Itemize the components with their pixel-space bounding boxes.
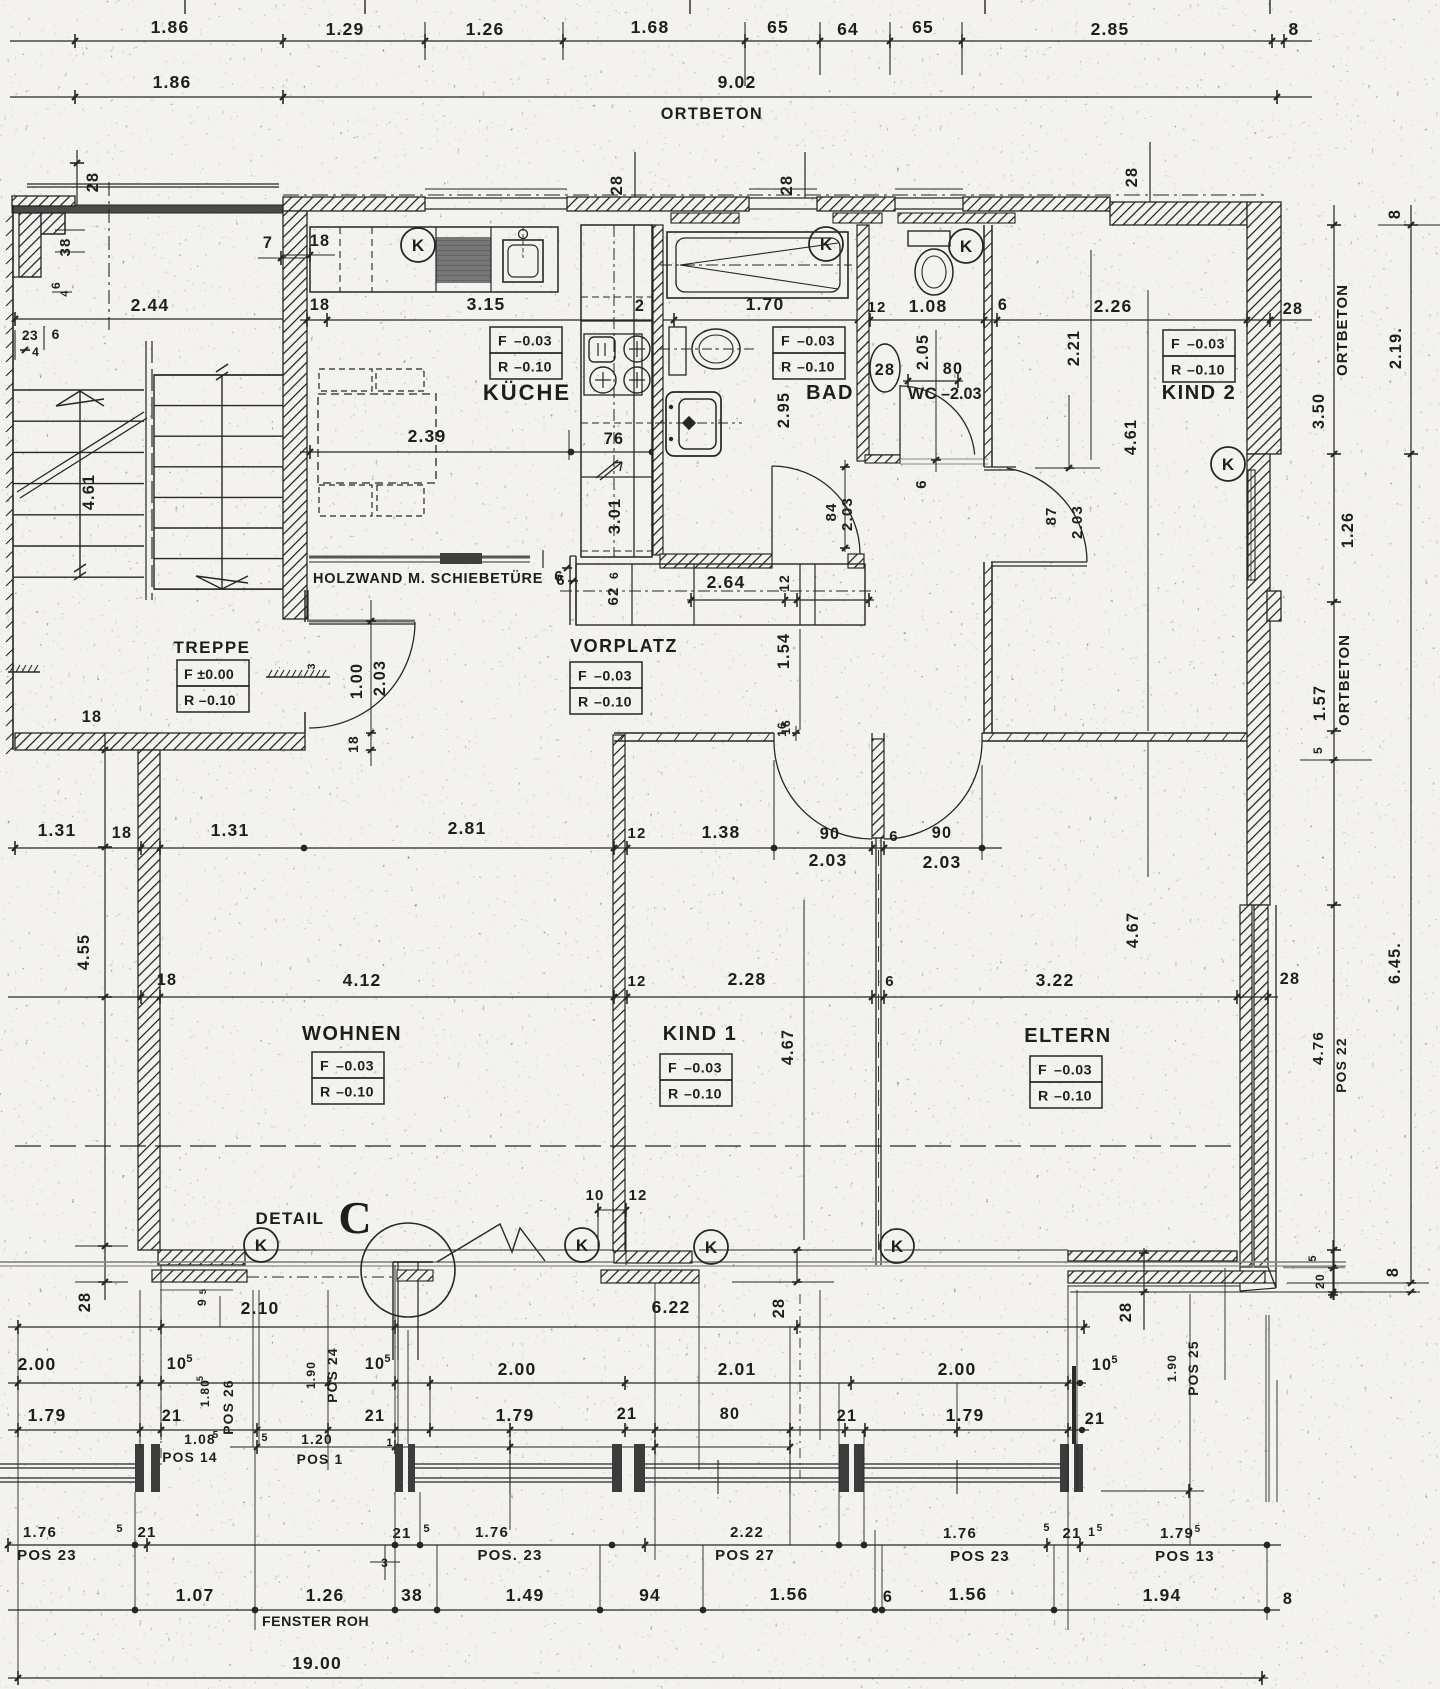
label 2.95 rot — [775, 392, 793, 428]
svg-text:21: 21 — [365, 1407, 385, 1425]
left vert dim line — [98, 740, 112, 1300]
dim labels 2.03 doors — [809, 850, 962, 872]
svg-text:6: 6 — [885, 973, 895, 990]
wc 28 ellipse — [870, 344, 900, 392]
label POS 22 right — [1334, 1037, 1349, 1093]
svg-text:21: 21 — [837, 1407, 857, 1425]
svg-text:6: 6 — [607, 571, 621, 579]
svg-text:R –0.10: R –0.10 — [184, 693, 236, 709]
wall top-left nook vertical — [19, 213, 41, 277]
dim label 2.85 — [1091, 19, 1130, 39]
label 19.00 — [292, 1653, 342, 1673]
stair divider double line — [146, 341, 152, 600]
entry door arc — [309, 622, 415, 728]
bottom verticals — [18, 1265, 1277, 1678]
K circle kitchen — [401, 228, 435, 262]
svg-text:R: R — [320, 1085, 331, 1101]
svg-text:80: 80 — [943, 360, 963, 378]
svg-text:1.08: 1.08 — [909, 296, 948, 316]
svg-text:5: 5 — [423, 1523, 430, 1535]
K circle bad — [809, 227, 843, 261]
dim top row2 line — [10, 90, 1312, 104]
tiny 3 label — [370, 1545, 400, 1580]
dim 6 nook — [49, 281, 72, 297]
wall top right of wc — [963, 197, 1110, 211]
svg-text:5: 5 — [1311, 746, 1325, 754]
svg-text:K: K — [255, 1236, 268, 1255]
kitchen counter — [310, 227, 558, 292]
wc threshold — [900, 459, 988, 464]
kind2 door dims — [1035, 395, 1100, 539]
pillar mid hatch — [601, 1251, 699, 1283]
svg-text:POS 27: POS 27 — [715, 1547, 775, 1564]
dim row bad y321 already in y320 — [0, 0, 1, 1]
svg-text:F: F — [498, 334, 507, 350]
dim row 2.39 y456 — [300, 430, 660, 460]
svg-text:5: 5 — [213, 1430, 220, 1441]
window top bad — [749, 189, 817, 209]
svg-text:18: 18 — [112, 824, 132, 842]
kind1 level box — [660, 1054, 732, 1106]
svg-text:1.08: 1.08 — [184, 1432, 216, 1447]
svg-text:1: 1 — [386, 1437, 393, 1449]
svg-text:POS. 23: POS. 23 — [477, 1547, 542, 1564]
svg-text:28: 28 — [1123, 167, 1141, 187]
svg-text:TREPPE: TREPPE — [173, 638, 250, 657]
dim 28 bad top — [778, 152, 805, 198]
cabinet left wall stub — [570, 556, 576, 625]
svg-text:90: 90 — [932, 824, 952, 842]
svg-text:21: 21 — [137, 1524, 156, 1541]
svg-text:38: 38 — [401, 1585, 423, 1605]
right dim chain outer — [1404, 205, 1418, 1283]
svg-text:12: 12 — [867, 299, 886, 316]
label BAD — [806, 382, 854, 404]
svg-text:28: 28 — [1283, 300, 1303, 318]
label ELTERN — [1024, 1025, 1112, 1047]
label FENSTER ROH — [262, 1614, 369, 1630]
svg-text:5: 5 — [195, 1375, 205, 1381]
svg-text:5: 5 — [1195, 1524, 1202, 1535]
wc toilet — [908, 231, 953, 295]
bottom dashdot verticals — [161, 1294, 800, 1478]
wall right outer line — [1240, 905, 1276, 1291]
label 2.21 rot — [1065, 250, 1091, 460]
svg-text:F: F — [1038, 1063, 1047, 1079]
dim label 1.26 — [466, 19, 505, 39]
svg-text:–0.10: –0.10 — [594, 695, 632, 711]
centerline top wall dash-dot — [283, 194, 1268, 196]
label 4.67 kind1 — [779, 900, 804, 1240]
svg-text:10: 10 — [1092, 1356, 1112, 1374]
detail circle — [361, 1223, 455, 1317]
dim label 1.70 — [746, 294, 785, 314]
svg-text:12: 12 — [777, 574, 792, 592]
label 2.19 right — [1387, 327, 1405, 369]
right bottom small dims — [1283, 1240, 1345, 1300]
svg-text:2.00: 2.00 — [938, 1359, 977, 1379]
svg-text:18: 18 — [82, 708, 102, 726]
svg-text:2.21: 2.21 — [1065, 330, 1083, 366]
svg-text:POS 1: POS 1 — [297, 1452, 344, 1467]
vorplatz cabinets — [560, 564, 876, 625]
pillar dims — [585, 1187, 647, 1265]
K circle w2 — [565, 1228, 599, 1262]
dim row 2.64 — [687, 572, 874, 607]
svg-text:–0.03: –0.03 — [684, 1061, 722, 1077]
dim label 1.08 — [909, 296, 948, 316]
svg-text:5: 5 — [186, 1353, 193, 1365]
svg-text:–0.10: –0.10 — [684, 1087, 722, 1103]
balcony strip left — [152, 1270, 247, 1290]
dim label 1.86 row2 — [153, 72, 192, 92]
svg-text:–0.03: –0.03 — [336, 1059, 374, 1075]
svg-text:KIND 1: KIND 1 — [663, 1023, 738, 1045]
window top kitchen — [425, 189, 567, 209]
vorplatz level box — [570, 662, 642, 714]
dim 38 nook — [55, 230, 85, 257]
svg-text:8: 8 — [1386, 209, 1404, 219]
svg-text:1.57: 1.57 — [1311, 685, 1329, 721]
dim row D y1447 — [230, 1440, 793, 1454]
svg-text:R: R — [781, 360, 792, 376]
wall top above bad-wc — [817, 197, 895, 211]
svg-text:1.26: 1.26 — [466, 19, 505, 39]
dim label 9.02 — [718, 72, 757, 92]
dim 28 left top — [70, 150, 102, 207]
stair diagonal rail — [17, 412, 147, 498]
hatch ticks left edge — [6, 215, 13, 754]
kitchen appliance gray — [436, 227, 491, 292]
wall bad left — [653, 225, 663, 555]
K circle wc — [949, 229, 983, 263]
svg-text:F ±0.00: F ±0.00 — [184, 667, 234, 683]
label 4.76 right — [1310, 1031, 1327, 1065]
svg-text:1.79: 1.79 — [946, 1405, 985, 1425]
svg-text:28: 28 — [76, 1292, 94, 1312]
wall inner strip above bad — [671, 213, 739, 223]
svg-text:10: 10 — [365, 1355, 385, 1373]
dim labels row C — [28, 1405, 1106, 1428]
wall inner strip above wc — [833, 213, 882, 223]
dim top row1 line — [10, 34, 1312, 48]
svg-text:1: 1 — [1088, 1525, 1096, 1539]
svg-text:3.15: 3.15 — [467, 294, 506, 314]
wall right main — [1247, 454, 1270, 905]
svg-text:2.26: 2.26 — [1094, 296, 1133, 316]
zigzag break — [437, 1224, 545, 1262]
balcony edge line top-left — [27, 184, 279, 187]
svg-text:6: 6 — [998, 296, 1008, 314]
dim 3.01 rotated — [606, 498, 624, 534]
svg-text:4: 4 — [32, 345, 40, 359]
dim labels row y997 — [157, 969, 1300, 990]
kitchen right column — [581, 225, 652, 557]
svg-text:–0.10: –0.10 — [336, 1085, 374, 1101]
label 4.55 rot — [75, 934, 93, 970]
label 28 left bottom — [75, 1246, 128, 1312]
svg-text:2.03: 2.03 — [1069, 505, 1086, 539]
svg-text:12: 12 — [627, 973, 646, 990]
svg-text:2.85: 2.85 — [1091, 19, 1130, 39]
dash-dot extension x109 — [108, 182, 110, 330]
label 1.26 right — [1339, 512, 1357, 548]
dim 6 left cab — [556, 572, 578, 589]
svg-text:VORPLATZ: VORPLATZ — [570, 636, 678, 656]
svg-text:2: 2 — [635, 297, 645, 315]
bad door dims — [823, 460, 856, 552]
dim label 2.26 — [1094, 296, 1133, 316]
svg-text:2.01: 2.01 — [718, 1359, 757, 1379]
svg-text:K: K — [412, 236, 425, 255]
dim row F y1545 — [5, 1538, 1281, 1552]
svg-text:5: 5 — [116, 1523, 123, 1535]
label WC 2.03 — [908, 384, 982, 403]
dim row A y1327 — [8, 1320, 1090, 1334]
label ORTBETON right1 — [1334, 284, 1351, 376]
svg-text:28: 28 — [778, 175, 796, 195]
window line long — [0, 1262, 1346, 1266]
svg-text:R: R — [1171, 363, 1182, 379]
svg-text:6: 6 — [913, 479, 930, 489]
label ORTBETON top — [661, 105, 764, 123]
svg-text:18: 18 — [310, 296, 330, 314]
window top edge line — [245, 1249, 1068, 1251]
eltern bottom right step — [1265, 1271, 1276, 1283]
label WOHNEN — [302, 1023, 402, 1045]
svg-text:–0.10: –0.10 — [514, 360, 552, 376]
svg-text:5: 5 — [261, 1432, 268, 1444]
svg-text:65: 65 — [912, 17, 934, 37]
svg-text:–0.10: –0.10 — [1187, 363, 1225, 379]
svg-text:4.67: 4.67 — [1124, 912, 1142, 948]
label 3.50 right — [1310, 393, 1328, 429]
svg-text:8: 8 — [1283, 1590, 1293, 1608]
pos labels row F — [17, 1547, 1215, 1565]
svg-text:10: 10 — [167, 1355, 187, 1373]
label KUCHE — [483, 380, 571, 405]
wall kitchen left — [283, 211, 307, 619]
svg-text:18: 18 — [310, 232, 330, 250]
svg-text:F: F — [781, 334, 790, 350]
kind2 door opening edges — [984, 467, 1087, 566]
svg-text:POS 14: POS 14 — [162, 1450, 218, 1465]
svg-text:2.03: 2.03 — [839, 497, 856, 531]
kitchen arrow symbol — [596, 460, 622, 480]
svg-text:1.70: 1.70 — [746, 294, 785, 314]
dim label 1.86 — [151, 17, 190, 37]
wall bad south — [660, 554, 864, 568]
svg-text:R: R — [1038, 1089, 1049, 1105]
svg-text:ORTBETON: ORTBETON — [1334, 284, 1351, 376]
svg-text:12: 12 — [628, 1187, 647, 1204]
svg-text:2.03: 2.03 — [809, 850, 848, 870]
svg-text:K: K — [576, 1236, 589, 1255]
stove burners — [584, 334, 650, 395]
wall top-left nook block — [41, 213, 65, 234]
svg-text:4.55: 4.55 — [75, 934, 93, 970]
dim row B y1383 — [8, 1376, 1086, 1390]
window top wc — [895, 189, 963, 209]
dim row G y1610 — [8, 1607, 1280, 1614]
svg-text:6: 6 — [883, 1588, 893, 1606]
svg-text:18: 18 — [157, 971, 177, 989]
kind2 level box — [1163, 330, 1235, 382]
svg-text:2.19.: 2.19. — [1387, 327, 1405, 369]
wall wohnen bottom — [158, 1250, 245, 1265]
svg-text:POS 25: POS 25 — [1186, 1340, 1201, 1396]
svg-text:1.26: 1.26 — [306, 1585, 345, 1605]
svg-text:HOLZWAND M. SCHIEBETÜRE: HOLZWAND M. SCHIEBETÜRE — [313, 570, 543, 587]
wall right lower strip2 — [1254, 905, 1268, 1267]
wall stub between doors — [872, 739, 884, 1265]
dim labels row G — [176, 1584, 1294, 1608]
K circle e1 — [880, 1229, 914, 1263]
kitchen column split — [633, 225, 635, 557]
svg-text:20: 20 — [1313, 1273, 1327, 1289]
entry wall edge — [305, 590, 308, 622]
label ORTBETON right2 — [1336, 634, 1353, 726]
svg-text:6: 6 — [556, 572, 566, 589]
svg-text:87: 87 — [1043, 506, 1060, 525]
svg-text:–0.10: –0.10 — [1054, 1089, 1092, 1105]
svg-text:84: 84 — [823, 502, 840, 521]
svg-text:R: R — [578, 695, 589, 711]
svg-text:F: F — [668, 1061, 677, 1077]
svg-text:FENSTER ROH: FENSTER ROH — [262, 1614, 369, 1630]
kitchen table dashed — [318, 369, 436, 516]
label 4.67 eltern — [1124, 741, 1148, 948]
svg-text:2.05: 2.05 — [914, 334, 932, 370]
dim 6 holzwand — [554, 565, 572, 585]
svg-text:1.68: 1.68 — [631, 17, 670, 37]
svg-text:19.00: 19.00 — [292, 1653, 342, 1673]
svg-text:23: 23 — [22, 328, 38, 343]
svg-text:4.61: 4.61 — [1122, 419, 1140, 455]
svg-text:1.54: 1.54 — [775, 633, 793, 669]
dim label 2.39 — [408, 426, 447, 446]
svg-text:1.29: 1.29 — [326, 19, 365, 39]
svg-text:7: 7 — [263, 234, 273, 252]
svg-text:KÜCHE: KÜCHE — [483, 380, 571, 405]
svg-text:DETAIL: DETAIL — [255, 1209, 324, 1228]
svg-text:–0.03: –0.03 — [514, 334, 552, 350]
svg-text:9.02: 9.02 — [718, 72, 757, 92]
svg-text:28: 28 — [608, 175, 626, 195]
svg-text:2.00: 2.00 — [18, 1354, 57, 1374]
svg-text:1.76: 1.76 — [943, 1525, 977, 1542]
svg-text:4.61: 4.61 — [80, 474, 98, 510]
dim row y997 — [8, 990, 1278, 1004]
svg-text:–0.10: –0.10 — [797, 360, 835, 376]
svg-text:18: 18 — [346, 735, 361, 753]
K circle kind2 — [1211, 447, 1245, 481]
svg-text:5: 5 — [384, 1353, 391, 1365]
svg-text:2.39: 2.39 — [408, 426, 447, 446]
wall eltern top — [982, 733, 1247, 741]
svg-text:28: 28 — [875, 361, 895, 379]
svg-text:–2.03: –2.03 — [941, 385, 982, 403]
svg-text:F: F — [1171, 337, 1180, 353]
dim 4.61 stairs — [80, 474, 98, 510]
label 2.05 rot — [914, 334, 932, 370]
dim 18 kitchen wall upper — [283, 232, 335, 262]
svg-text:1.07: 1.07 — [176, 1585, 215, 1605]
svg-text:R: R — [498, 360, 509, 376]
svg-text:28: 28 — [1117, 1302, 1135, 1322]
label KIND 2 — [1162, 382, 1237, 404]
dim labels row A — [241, 1297, 691, 1318]
dim top row1 extension ticks above — [185, 0, 1270, 86]
svg-text:F: F — [320, 1059, 329, 1075]
dim label 2 y320 — [635, 297, 645, 315]
stair right flight steps — [154, 375, 290, 589]
svg-text:2.64: 2.64 — [707, 572, 746, 592]
svg-text:1.26: 1.26 — [1339, 512, 1357, 548]
stair down arrow — [196, 364, 248, 589]
svg-text:5: 5 — [1097, 1523, 1104, 1534]
dim label 28 y320 — [1283, 300, 1303, 318]
svg-text:K: K — [891, 1237, 904, 1256]
svg-text:1.86: 1.86 — [153, 72, 192, 92]
svg-text:6.22: 6.22 — [652, 1297, 691, 1317]
svg-text:F: F — [578, 669, 587, 685]
svg-text:K: K — [820, 235, 833, 254]
svg-text:K: K — [705, 1238, 718, 1257]
dim 28 kitchen top — [608, 152, 635, 198]
right dim chain inner — [1327, 205, 1341, 1300]
kitchen counter divider dash — [340, 227, 372, 292]
svg-text:6: 6 — [49, 281, 63, 289]
svg-text:4.12: 4.12 — [343, 970, 382, 990]
wall right thick top — [1247, 202, 1281, 454]
wall top above kitchen — [283, 197, 425, 211]
label 6.45 right — [1386, 942, 1404, 984]
svg-text:3.01: 3.01 — [606, 498, 624, 534]
label VORPLATZ — [570, 636, 678, 656]
dim 62 6 rot — [605, 571, 622, 605]
balcony dashdot — [247, 1276, 400, 1278]
dim 7 left of wall — [258, 234, 305, 265]
entry door leaf — [309, 621, 415, 624]
K circle w1 — [244, 1228, 278, 1262]
dim row y847 — [8, 841, 1002, 855]
bad level box — [773, 327, 845, 379]
dim 8 bottom right — [1070, 1267, 1429, 1295]
kind1 door arc — [774, 741, 872, 839]
section dashed line — [15, 1145, 1240, 1147]
bathtub — [660, 232, 852, 298]
kitchen sink — [503, 227, 543, 282]
dim row H y1678 — [8, 1671, 1268, 1685]
label HOLZWAND — [313, 570, 543, 587]
stair up arrow — [56, 390, 104, 580]
svg-text:1.80: 1.80 — [198, 1379, 212, 1407]
svg-text:1.79: 1.79 — [496, 1405, 535, 1425]
svg-text:2.95: 2.95 — [775, 392, 793, 428]
svg-text:62: 62 — [605, 586, 622, 605]
label 16 rot — [779, 719, 793, 735]
wall eltern bottom lower — [1068, 1271, 1265, 1286]
wall kind2 top thick — [1110, 202, 1247, 225]
stair left flight steps — [13, 390, 144, 577]
svg-text:64: 64 — [837, 19, 859, 39]
dim label 64 — [837, 19, 859, 39]
svg-text:K: K — [1222, 455, 1235, 474]
svg-text:10: 10 — [585, 1187, 604, 1204]
dim label 1.29 — [326, 19, 365, 39]
label DETAIL C — [255, 1192, 371, 1243]
